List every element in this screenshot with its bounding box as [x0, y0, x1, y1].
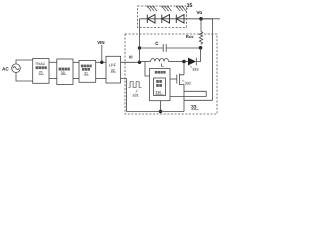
wire 31 to LPF bottom [96, 78, 106, 80]
wire 30 to 31 top [73, 61, 79, 63]
wire AC bottom to TRIAC box [16, 73, 33, 82]
svg-text:LPF: LPF [109, 63, 117, 68]
label glyph rows (box 31) [81, 65, 92, 71]
AC source V1 [12, 64, 21, 73]
LED D3 [176, 6, 186, 23]
label controller glyph row [155, 71, 166, 74]
svg-text:330: 330 [155, 90, 161, 94]
inductor L [140, 59, 185, 62]
svg-text:30: 30 [61, 71, 65, 75]
wire main vertical riser [139, 19, 141, 63]
svg-text:333: 333 [192, 68, 198, 72]
wire sense loop upper [170, 91, 206, 96]
node VIN junction [100, 61, 103, 64]
wire Vo return right [201, 19, 213, 101]
svg-text:332: 332 [185, 82, 191, 86]
dashed converter box 33 [125, 34, 217, 114]
block 30 [57, 59, 73, 85]
label glyph rows (box 330) [156, 80, 162, 87]
svg-text:20: 20 [39, 71, 43, 75]
node C junction [138, 46, 141, 49]
wire TRIAC to rectifier top [49, 61, 57, 63]
node diode anode [182, 60, 186, 64]
controller outer box [150, 69, 171, 101]
LED D1 [147, 6, 157, 23]
wire Vo down to Rcs [200, 19, 202, 32]
svg-text:TRIAC: TRIAC [35, 62, 46, 66]
wire TRIAC to rectifier bottom [49, 78, 57, 80]
capacitor C [140, 44, 201, 52]
transistor Q 332 [170, 74, 184, 86]
wire 31 to LPF top [96, 61, 106, 63]
label glyph row (box 30) [59, 68, 70, 71]
LED D2 [162, 6, 172, 23]
wire 30 to 31 bottom [73, 78, 79, 80]
node Rcs bottom [199, 46, 203, 50]
resistor Rcs [199, 32, 202, 45]
node ground rail junction [159, 110, 162, 113]
svg-text:VIN: VIN [97, 40, 104, 45]
wire bottom rail [127, 111, 185, 113]
node VI junction [138, 61, 141, 64]
node Vo [199, 17, 203, 21]
wire source down to rail [183, 85, 185, 112]
svg-text:VI: VI [129, 54, 133, 59]
diode 333 [184, 58, 196, 66]
svg-text:C: C [155, 41, 159, 46]
svg-text:331: 331 [132, 94, 138, 98]
wire controller ground [160, 101, 162, 112]
wire LED string [140, 18, 221, 20]
wire LPF to node VI [121, 61, 140, 63]
svg-text:L: L [161, 63, 164, 68]
wire drain up to node [183, 62, 185, 75]
wire input sense into controller [145, 62, 150, 77]
wire VIN stub [101, 45, 103, 63]
wire Rcs bottom to diode cathode [196, 48, 200, 62]
label dimmer glyph row (box 20) [36, 66, 47, 69]
svg-text:Vo: Vo [196, 10, 202, 16]
wire LPF return to bottom rail [121, 79, 127, 112]
dashed LED box 35 [138, 6, 187, 28]
svg-text:32: 32 [111, 68, 115, 72]
block TRIAC dimmer 20 [33, 59, 49, 84]
waveform symbol 331 [129, 82, 142, 88]
svg-text:35: 35 [187, 3, 193, 9]
wire AC top to TRIAC box [16, 60, 33, 64]
svg-text:33: 33 [191, 105, 197, 111]
svg-text:Rcs: Rcs [186, 34, 194, 39]
block rectifier 31 [79, 61, 96, 83]
svg-text:31: 31 [84, 71, 88, 75]
svg-text:AC: AC [2, 67, 9, 72]
block LPF 32 [106, 56, 121, 83]
controller inner box 330 [154, 78, 166, 96]
wire Vo return joins source [184, 99, 213, 101]
